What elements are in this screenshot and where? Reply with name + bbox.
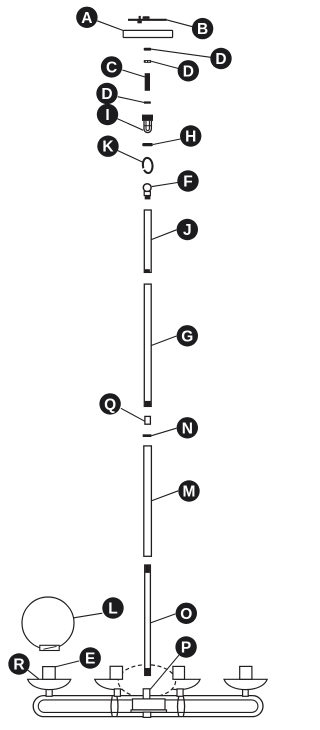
ring clamp left xyxy=(111,696,118,716)
center plate xyxy=(131,699,167,717)
cup dish 4 xyxy=(224,679,267,689)
locknut N xyxy=(143,434,152,437)
quick link K xyxy=(142,157,153,173)
callout H xyxy=(180,125,201,146)
socket cube 4 xyxy=(240,666,252,679)
ball body (phantom) xyxy=(118,665,175,698)
socket cube 2 xyxy=(110,666,122,679)
leader line B xyxy=(167,20,193,27)
collar loop F xyxy=(143,184,151,200)
svg-text:M: M xyxy=(183,484,196,501)
callout L xyxy=(102,597,123,618)
leader line O xyxy=(151,614,176,623)
crossbar screw xyxy=(137,16,141,23)
svg-text:D: D xyxy=(183,63,194,80)
leader line K xyxy=(118,151,143,163)
callout R xyxy=(8,653,29,674)
svg-text:H: H xyxy=(185,129,196,146)
locknut D1 xyxy=(144,48,152,51)
svg-text:C: C xyxy=(106,59,117,76)
callout K xyxy=(97,136,118,157)
leader line H xyxy=(153,139,180,145)
leader line I xyxy=(117,119,143,131)
leader line F xyxy=(152,183,178,187)
leader line D3 xyxy=(118,97,145,103)
leader line L xyxy=(74,613,103,618)
ring clamp right xyxy=(178,696,185,716)
callout A xyxy=(76,7,97,28)
leader line D2 xyxy=(152,61,178,68)
svg-text:N: N xyxy=(182,420,193,437)
svg-text:B: B xyxy=(197,21,208,38)
svg-text:E: E xyxy=(85,651,95,668)
callout G xyxy=(177,325,198,346)
leader line A xyxy=(97,21,123,31)
leader line D1 xyxy=(152,49,211,57)
callout F xyxy=(177,170,198,191)
svg-text:G: G xyxy=(181,328,193,345)
stem 4 xyxy=(243,689,249,696)
stem 3 xyxy=(177,689,183,696)
backplate bar xyxy=(33,696,263,717)
crossbar nut xyxy=(143,16,150,19)
leader line C xyxy=(122,70,145,77)
leader line Q xyxy=(121,408,145,421)
svg-text:D: D xyxy=(215,51,226,68)
callout E xyxy=(80,647,101,668)
svg-text:J: J xyxy=(183,222,192,239)
svg-text:F: F xyxy=(183,174,192,191)
tube G xyxy=(144,284,151,406)
cup dish 3 (behind ball) xyxy=(157,679,200,689)
svg-text:O: O xyxy=(180,606,192,623)
stem 2 xyxy=(114,689,120,696)
cup dish 1 xyxy=(28,679,71,689)
callout J xyxy=(177,219,198,240)
center socket P xyxy=(143,689,150,699)
threaded nipple C xyxy=(145,73,150,91)
callout I xyxy=(97,104,118,125)
globe L xyxy=(22,597,74,651)
svg-text:P: P xyxy=(181,640,191,657)
cup dish 2 (behind ball) xyxy=(95,679,138,689)
leader line P xyxy=(150,655,179,689)
svg-text:Q: Q xyxy=(104,396,116,413)
svg-text:A: A xyxy=(81,10,92,27)
leader line J xyxy=(151,230,176,240)
nut D2 xyxy=(144,60,152,63)
tube J xyxy=(144,210,151,272)
svg-text:I: I xyxy=(105,107,109,124)
locknut H xyxy=(142,143,153,146)
callout O xyxy=(176,603,197,624)
socket I xyxy=(142,115,153,133)
tube M xyxy=(144,446,152,556)
leader line R xyxy=(28,670,39,679)
svg-text:K: K xyxy=(102,139,114,156)
callout M xyxy=(178,480,199,501)
callout P xyxy=(175,636,196,657)
callout N xyxy=(177,417,198,438)
washer D3 xyxy=(144,101,151,103)
leader line M xyxy=(152,491,178,501)
tube O xyxy=(145,565,151,675)
coupling Q xyxy=(145,416,151,424)
leader line E xyxy=(55,661,80,667)
callout B xyxy=(192,18,213,39)
svg-text:L: L xyxy=(108,601,117,618)
stem 1 xyxy=(46,689,52,696)
leader line N xyxy=(152,428,177,436)
callout D2 xyxy=(178,60,199,81)
svg-text:D: D xyxy=(101,86,112,103)
socket cube 3 xyxy=(173,666,185,679)
callout Q xyxy=(99,393,120,414)
callout C xyxy=(101,56,122,77)
mounting crossbar B xyxy=(128,19,167,21)
svg-text:R: R xyxy=(13,657,24,674)
socket cube 1 E xyxy=(43,667,56,680)
callout D3 xyxy=(96,83,117,104)
canopy A xyxy=(123,30,172,37)
callout D1 xyxy=(210,48,231,69)
leader line G xyxy=(151,336,176,346)
